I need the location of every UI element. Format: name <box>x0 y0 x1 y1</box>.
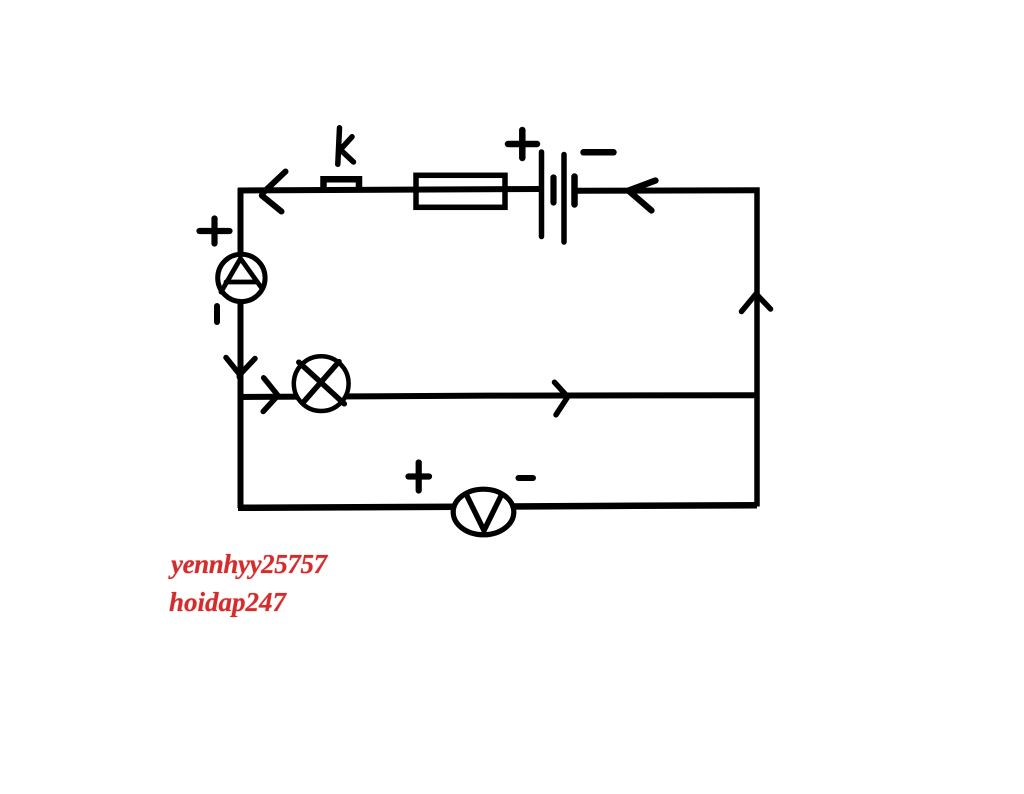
arrow current middle wire centre (pointing right) <box>555 382 568 415</box>
wire top <box>238 189 541 191</box>
watermark line 1 <box>171 549 327 580</box>
polarity - ammeter <box>214 306 220 322</box>
polarity + battery <box>508 130 537 158</box>
wire bottom <box>238 505 757 508</box>
battery plate short 1 <box>550 178 556 203</box>
wire right vertical <box>754 188 760 507</box>
switch K <box>324 179 360 192</box>
polarity + voltmeter <box>409 463 430 491</box>
label k (switch designator) <box>338 128 354 165</box>
wire middle horizontal <box>238 395 757 397</box>
lamp X cross <box>299 362 345 404</box>
arrow current top-left (pointing left) <box>262 172 286 212</box>
wire top-right (battery to corner) <box>576 187 760 194</box>
polarity - voltmeter <box>519 475 534 481</box>
ammeter A body <box>218 254 265 301</box>
resistor R <box>416 175 505 207</box>
voltmeter V body <box>453 489 514 535</box>
arrow current top-right (pointing left) <box>629 181 656 211</box>
voltmeter V letter <box>467 494 502 530</box>
arrow current left wire (pointing down) <box>226 358 255 378</box>
battery plate long 1 <box>539 152 545 237</box>
battery plate short 2 <box>571 177 578 205</box>
lamp X body <box>294 356 349 411</box>
polarity - battery <box>584 149 614 156</box>
battery plate long 2 <box>561 155 567 243</box>
wire left vertical <box>238 188 244 508</box>
ammeter A letter <box>221 259 262 293</box>
arrow current right wire (pointing up) <box>742 294 771 311</box>
watermark line 2 <box>169 587 286 618</box>
polarity + ammeter <box>200 219 230 244</box>
arrow current middle wire near junction (pointing right) <box>263 378 277 412</box>
